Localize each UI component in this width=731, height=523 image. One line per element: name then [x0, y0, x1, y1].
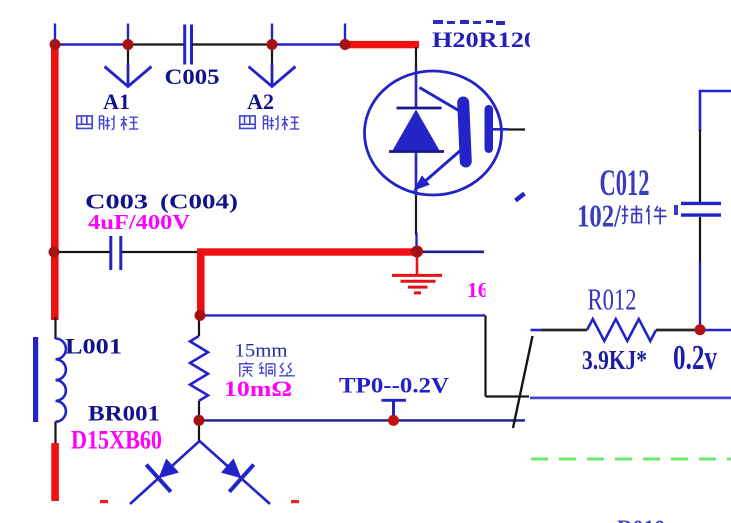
label kang-tong-si: [239, 362, 295, 377]
svg-text:R012: R012: [588, 282, 637, 317]
label C005: [165, 64, 220, 89]
svg-text:A2: A2: [247, 89, 274, 114]
wire: IGBT gate lead blue part: [493, 128, 508, 131]
wire: blue segment right of ground node: [420, 251, 484, 254]
capacitor C005: [185, 25, 192, 65]
test point TP0: [382, 400, 407, 420]
red tick right: [291, 500, 299, 503]
wire: top bus stub above node A2: [271, 24, 273, 46]
label C003 (C004): [85, 190, 238, 214]
svg-text:L001: L001: [65, 334, 122, 359]
green dashed separator line: [531, 458, 731, 461]
wire: R012 right lead black: [656, 329, 696, 332]
wire: C003 right lead: [122, 251, 199, 253]
svg-text:0.2v: 0.2v: [673, 338, 717, 377]
label A1 si-jiao-zhu: [77, 115, 139, 130]
junction node TP0: [388, 415, 399, 426]
wire: net from shunt top to the right: [200, 314, 485, 316]
svg-text:TP0--0.2V: TP0--0.2V: [339, 373, 449, 398]
label 16 (clipped): [467, 278, 500, 302]
label R012: [588, 282, 637, 317]
wire: net to R012 area: [530, 396, 731, 399]
resistor shunt top lead: [198, 317, 200, 336]
label 0.2v: [673, 338, 717, 377]
label H20R120 (last digit clipped): [432, 27, 548, 52]
svg-text:3.9KJ*: 3.9KJ*: [582, 344, 647, 375]
resistor R012: [587, 319, 656, 341]
red tick left: [100, 500, 108, 503]
inductor L001 lead top black: [54, 317, 56, 339]
svg-text:15mm: 15mm: [235, 341, 288, 362]
diode BR001 left leg wire: [130, 441, 200, 504]
wire: thick red below L001: [51, 443, 59, 501]
label C012: [600, 163, 650, 204]
wire: black bracket horizontal: [486, 395, 530, 397]
wire: net from shunt bottom to the right: [200, 419, 525, 421]
wire: C003 left lead: [57, 251, 110, 253]
label D15XB60: [71, 426, 162, 455]
inductor L001 lead bottom black: [54, 422, 56, 445]
diode BR001 right: [221, 458, 254, 491]
junction node at (345,44.5): [340, 39, 351, 50]
wire: A1 drop wire: [127, 45, 129, 67]
diode BR001 left: [146, 459, 179, 492]
wire: R012 left lead black: [542, 329, 587, 332]
wire: thick red left bus vertical: [51, 44, 59, 320]
svg-text:C005: C005: [165, 64, 220, 89]
wire: C012 top lead black: [699, 130, 701, 202]
wire: top bus segment from C005 right plate to A2 node: [192, 43, 272, 45]
capacitor C012: [681, 203, 721, 215]
wire: thick red top bus segment to IGBT collector: [342, 41, 419, 48]
wire: top bus segment from A2 node to x=345 node: [272, 43, 345, 45]
svg-text:16: 16: [467, 278, 489, 302]
label A2 si-jiao-zhu: [240, 115, 300, 130]
wire: A2 drop wire: [271, 45, 273, 67]
wire: IGBT gate lead black stub: [508, 128, 525, 130]
label 3.9KJ*: [582, 344, 647, 375]
diode BR001 right leg wire: [200, 441, 271, 504]
svg-text:R010: R010: [617, 515, 665, 523]
connector A2 arrow symbol: [249, 63, 296, 87]
resistor shunt bottom lead: [198, 401, 200, 442]
svg-text:102/: 102/: [577, 198, 622, 234]
wire: top bus stub above node at x=345: [344, 24, 346, 46]
junction node R012 right: [695, 324, 706, 335]
label 102/cha-jian: [577, 198, 678, 234]
svg-text:BR001: BR001: [88, 401, 160, 426]
wire: C012 bottom lead black: [699, 217, 701, 263]
inductor L001: [56, 339, 66, 422]
label A2: [247, 89, 274, 114]
svg-text:H20R120: H20R120: [432, 27, 537, 52]
capacitor C003: [111, 236, 121, 270]
label TP0--0.2V: [339, 373, 449, 398]
wire: IGBT collector lead from red bus: [415, 47, 417, 70]
junction node ground/emitter: [411, 246, 423, 258]
wire: net right of R012: [700, 329, 731, 332]
wire: top bus stub above node at x=55: [54, 24, 56, 46]
wire: C012 bottom lead blue: [699, 262, 701, 327]
label L001: [65, 334, 122, 359]
svg-text:A1: A1: [103, 89, 130, 114]
transistor Q IGBT H20R120: [365, 69, 502, 196]
junction node A2: [267, 39, 278, 50]
junction node shunt bottom: [194, 415, 205, 426]
wire: top right corner net: [700, 91, 731, 131]
wire: top bus segment from left corner to A1 node: [55, 43, 128, 45]
label R010 clipped at bottom: [617, 515, 665, 523]
label 4uF/400V: [88, 210, 191, 234]
wire: top bus stub above node A1: [127, 24, 129, 46]
label 15mm: [235, 341, 288, 362]
inductor L001 core bar: [33, 337, 38, 422]
annotation short blue diagonal stroke: [516, 194, 525, 201]
resistor shunt 10mOhm: [190, 336, 208, 401]
wire: top bus segment from A1 node to C005 left plate: [128, 43, 184, 45]
wire: black bracket vertical: [484, 315, 486, 396]
junction node C003 left: [49, 247, 60, 258]
svg-text:10mΩ: 10mΩ: [224, 376, 292, 401]
ground symbol (red): [392, 255, 442, 293]
annotation black diagonal line: [513, 336, 533, 428]
wire: thick red horizontal bus to ground node: [197, 248, 420, 255]
wire: IGBT emitter lead black: [415, 196, 417, 235]
junction node shunt top: [195, 310, 206, 321]
junction node at (55,44.5): [50, 39, 61, 50]
svg-text:4uF/400V: 4uF/400V: [88, 210, 191, 234]
label IGBT clipped text remnants: [433, 20, 505, 25]
wire: R012 left blue stub: [531, 329, 544, 332]
label A1: [103, 89, 130, 114]
wire: IGBT emitter lead blue: [415, 233, 417, 250]
connector A1 arrow symbol: [105, 63, 152, 87]
junction node A1: [123, 39, 134, 50]
label BR001: [88, 401, 160, 426]
wire: thick red vertical drop at x=200: [197, 249, 205, 313]
svg-text:D15XB60: D15XB60: [71, 426, 162, 455]
label 10mOhm: [224, 376, 292, 401]
